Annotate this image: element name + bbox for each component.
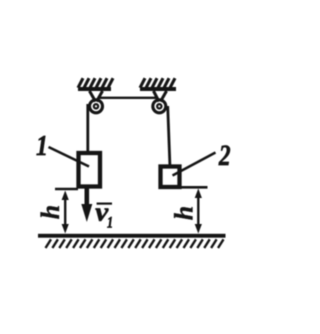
label v1 with overbar — [95, 197, 113, 232]
ground line — [38, 234, 226, 238]
left pulley hub — [94, 104, 98, 108]
left pulley wheel — [90, 100, 103, 113]
right pulley bracket — [154, 91, 167, 102]
right pulley hub — [157, 104, 161, 108]
mass 2 square — [161, 167, 180, 188]
ceiling support right: hatching — [140, 78, 175, 88]
svg-text:h: h — [170, 206, 199, 220]
left ledge line — [55, 188, 78, 191]
ceiling support left: bar — [78, 87, 111, 91]
right h dimension arrow — [195, 189, 202, 234]
rope between pulleys — [98, 97, 158, 99]
left pulley bracket — [90, 91, 103, 102]
left rope to mass 1 — [86, 104, 89, 152]
leader line to label 1 — [49, 147, 90, 167]
mass 1 rectangle — [79, 153, 101, 187]
right pulley wheel — [153, 100, 166, 113]
left h dimension arrow — [62, 191, 69, 234]
right ledge line — [181, 186, 208, 189]
leader line to label 2 — [173, 153, 216, 176]
ground hatching — [46, 239, 224, 248]
svg-text:2: 2 — [218, 138, 231, 171]
svg-text:h: h — [36, 205, 65, 219]
right rope to mass 2 — [168, 106, 170, 165]
svg-text:1: 1 — [36, 130, 48, 161]
svg-text:1: 1 — [107, 214, 113, 232]
velocity v1 arrow — [81, 189, 92, 223]
ceiling support right: bar — [140, 87, 176, 91]
ceiling support left: hatching — [78, 78, 113, 88]
